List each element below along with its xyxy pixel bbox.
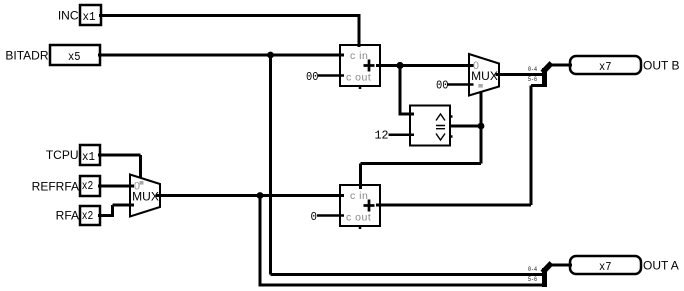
- svg-text:5-6: 5-6: [528, 276, 537, 283]
- svg-text:TCPU: TCPU: [46, 148, 79, 162]
- svg-text:RFA: RFA: [56, 208, 79, 222]
- svg-text:INC: INC: [58, 9, 79, 23]
- svg-text:5-6: 5-6: [528, 76, 537, 83]
- svg-text:c out: c out: [346, 72, 371, 84]
- svg-text:REFRFA: REFRFA: [32, 179, 79, 193]
- svg-text:c in: c in: [350, 50, 368, 62]
- svg-text:0: 0: [473, 60, 479, 72]
- svg-text:BITADR: BITADR: [5, 48, 48, 62]
- svg-text:x1: x1: [82, 150, 95, 164]
- svg-text:OUT B: OUT B: [643, 58, 679, 72]
- svg-text:x1: x1: [83, 10, 96, 24]
- svg-text:c in: c in: [350, 190, 368, 202]
- svg-text:0: 0: [311, 210, 318, 224]
- svg-text:00: 00: [306, 70, 319, 84]
- svg-text:c out: c out: [346, 212, 371, 224]
- svg-text:x7: x7: [599, 60, 612, 74]
- svg-text:0: 0: [134, 180, 140, 192]
- svg-text:x2: x2: [82, 179, 94, 193]
- svg-text:x7: x7: [599, 260, 612, 274]
- svg-text:12: 12: [375, 129, 389, 143]
- svg-text:0-4: 0-4: [528, 66, 537, 73]
- svg-text:0-4: 0-4: [528, 266, 537, 273]
- svg-text:00: 00: [436, 78, 449, 92]
- svg-text:x5: x5: [68, 50, 81, 64]
- svg-text:OUT A: OUT A: [643, 258, 679, 272]
- svg-text:x2: x2: [82, 209, 94, 223]
